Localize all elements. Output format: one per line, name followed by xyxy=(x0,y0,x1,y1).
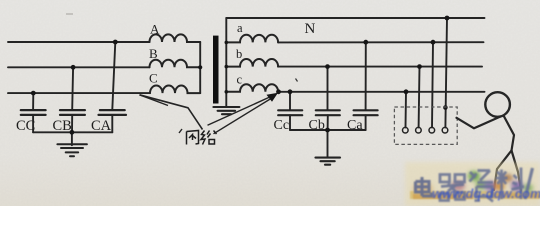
wire terminal drop from line b xyxy=(418,67,421,128)
terminal 1 (line c) xyxy=(403,127,409,133)
wire drop to capacitor CC xyxy=(32,93,34,109)
svg-text:N: N xyxy=(305,21,316,37)
ground G3 (right capacitor bank) xyxy=(316,158,341,165)
terminal 2 (line b) xyxy=(416,127,422,133)
capacitor CC xyxy=(21,110,46,132)
wire neutral N xyxy=(226,17,484,19)
primary winding C xyxy=(150,86,200,94)
person arm reaching terminals xyxy=(457,117,501,129)
svg-text:CC: CC xyxy=(16,118,35,134)
junction on neutral N at terminal drop xyxy=(445,16,450,21)
tick before flashover label xyxy=(179,129,182,133)
flashover callout wedge to primary side xyxy=(140,95,203,130)
svg-text:b: b xyxy=(236,47,242,61)
watermark glyph qi xyxy=(440,175,465,201)
wire left bus to ground xyxy=(71,132,73,145)
capacitor Ca xyxy=(354,110,378,130)
wire right bus to ground xyxy=(327,130,329,157)
svg-text:CB: CB xyxy=(53,118,72,134)
ground G2 (left capacitor bank) xyxy=(57,144,87,156)
watermark background wash xyxy=(405,162,540,206)
watermark color blobs xyxy=(413,171,533,196)
label flashover (hand-drawn CJK luo) xyxy=(201,131,217,145)
person left leg xyxy=(494,151,512,191)
svg-text:Cc: Cc xyxy=(274,118,290,133)
flashover arrowhead xyxy=(267,93,279,102)
wire line c (secondary feeder) xyxy=(278,91,484,93)
svg-text:a: a xyxy=(237,21,243,35)
wire phase C (left primary feeder) xyxy=(8,92,150,94)
wire drop to capacitor Cc xyxy=(289,92,291,110)
wire secondary star / neutral riser xyxy=(225,18,227,106)
svg-text:Cb: Cb xyxy=(309,118,325,133)
junction flashover tap on line c xyxy=(276,89,281,94)
capacitor Cc xyxy=(278,110,302,130)
terminal box (dashed) xyxy=(394,107,457,144)
person body trunk xyxy=(457,116,522,192)
wire line a (secondary feeder) xyxy=(278,41,483,43)
tick mark near coil c xyxy=(296,79,298,82)
transformer core U1 xyxy=(213,36,219,104)
svg-text:Ca: Ca xyxy=(347,118,363,133)
wire drop to capacitor Ca xyxy=(365,42,367,110)
wire drop to capacitor Cb xyxy=(327,67,329,110)
primary winding B xyxy=(150,60,201,68)
terminal 4 (neutral) xyxy=(442,127,448,133)
junction on phase B at CB tap xyxy=(71,65,76,70)
label flashover (hand-drawn CJK shan) xyxy=(187,131,199,145)
junction on line c at Cc tap xyxy=(288,89,293,94)
person head xyxy=(485,92,510,117)
junction on line c at terminal drop xyxy=(404,89,409,94)
svg-text:A: A xyxy=(150,21,160,36)
svg-text:B: B xyxy=(149,46,158,61)
wire drop to capacitor CA xyxy=(112,42,115,109)
junction at terminal box top xyxy=(443,105,448,110)
svg-text:www.dq-dqw.com: www.dq-dqw.com xyxy=(432,186,540,201)
junction primary star at phase B xyxy=(198,65,202,69)
ground G1 (transformer neutral) xyxy=(213,107,239,114)
wire left capacitor bus xyxy=(33,131,112,133)
watermark underline streak xyxy=(410,191,540,199)
capacitor CB xyxy=(60,110,85,132)
flashover callout arrow to line c xyxy=(208,96,274,134)
secondary winding c xyxy=(226,84,278,92)
wire terminal drop from neutral N xyxy=(445,18,447,127)
junction on phase C at CC tap xyxy=(31,91,36,96)
watermark glyph zi xyxy=(470,171,494,202)
capacitor CA xyxy=(99,110,127,132)
wire primary star point xyxy=(199,42,201,93)
junction on line a at terminal drop xyxy=(431,40,436,45)
faint speck top left xyxy=(66,13,73,15)
junction right bus to ground xyxy=(325,128,330,133)
wire phase A (left primary feeder) xyxy=(8,41,150,43)
watermark glyph dian xyxy=(416,177,432,196)
wire terminal drop from line a xyxy=(432,42,433,127)
secondary winding a xyxy=(226,35,278,43)
junction star riser at line a xyxy=(225,41,229,45)
junction star riser at line b xyxy=(225,65,229,69)
wire right capacitor bus xyxy=(290,129,366,131)
secondary winding b xyxy=(226,59,278,67)
terminal 3 (line a) xyxy=(429,127,435,133)
junction on line b at terminal drop xyxy=(417,64,422,69)
wire terminal drop from line c xyxy=(405,92,408,128)
junction left bus to ground xyxy=(70,130,75,135)
svg-text:CA: CA xyxy=(91,118,112,134)
watermark glyph liao xyxy=(496,168,524,200)
svg-text:C: C xyxy=(149,71,158,86)
junction star riser at line c xyxy=(225,90,229,94)
junction on line b at Cb tap xyxy=(325,64,330,69)
primary winding A xyxy=(150,34,201,42)
wire line b (secondary feeder) xyxy=(278,66,482,68)
junction on phase A at CA tap xyxy=(113,40,118,45)
junction on line a at Ca tap xyxy=(363,40,368,45)
capacitor Cb xyxy=(316,110,340,130)
wire phase B (left primary feeder) xyxy=(8,66,150,68)
wire drop to capacitor CB xyxy=(71,67,74,109)
svg-text:c: c xyxy=(237,73,243,87)
watermark glyph tail stroke xyxy=(525,168,533,199)
person right leg xyxy=(512,151,522,192)
